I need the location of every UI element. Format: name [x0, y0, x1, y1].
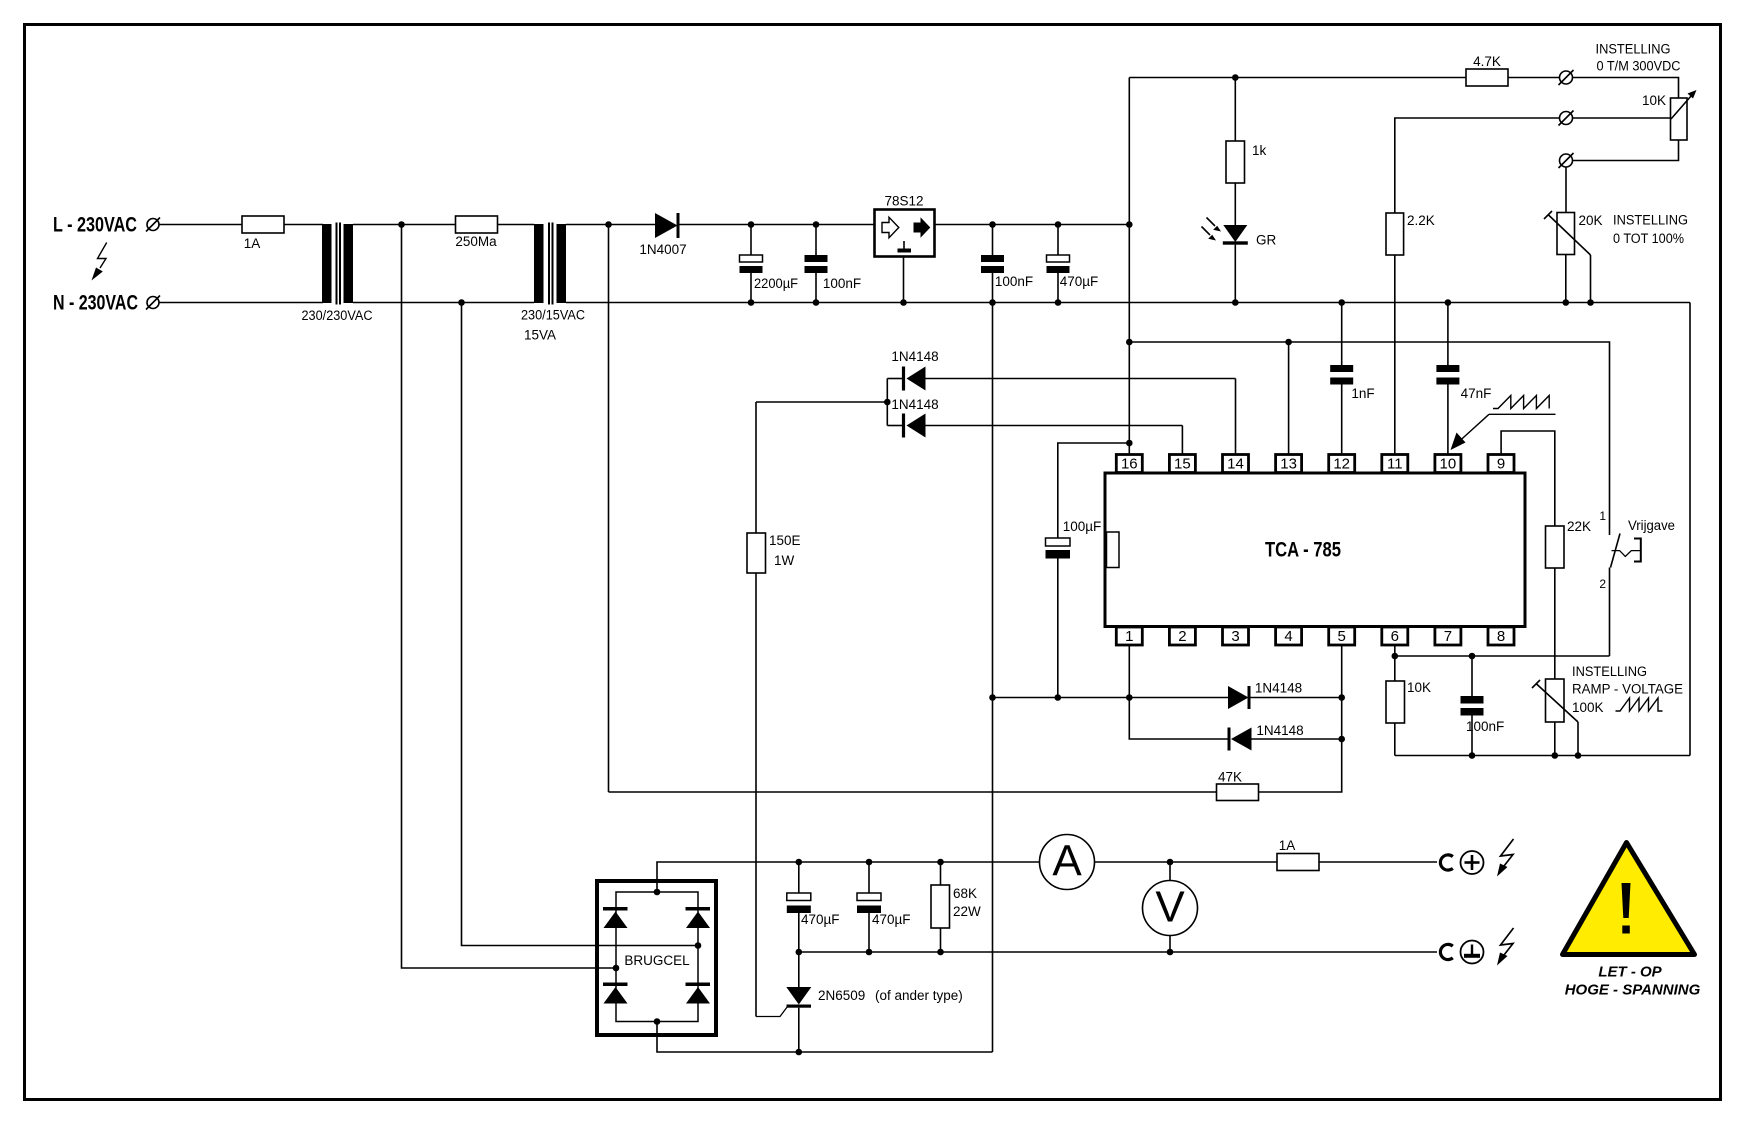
svg-text:0 T/M 300VDC: 0 T/M 300VDC — [1597, 59, 1681, 74]
svg-text:9: 9 — [1497, 456, 1505, 473]
svg-text:INSTELLING: INSTELLING — [1613, 213, 1688, 228]
resistor R8 68K 22W — [940, 862, 942, 885]
junction dots — [398, 221, 405, 228]
pin 9 — [1488, 455, 1514, 473]
fuse F2 250Ma — [456, 216, 498, 233]
svg-text:RAMP - VOLTAGE: RAMP - VOLTAGE — [1572, 682, 1683, 697]
sawtooth symbol ramp — [1616, 698, 1663, 711]
svg-text:4: 4 — [1284, 628, 1292, 645]
bridge diode lower-right — [686, 983, 711, 987]
svg-text:INSTELLING: INSTELLING — [1596, 42, 1671, 57]
svg-text:2200µF: 2200µF — [754, 276, 798, 291]
svg-text:68K: 68K — [953, 886, 977, 901]
regulator U2 78S12 — [875, 210, 935, 257]
fuse F3 1A — [1277, 854, 1319, 871]
svg-text:150E: 150E — [769, 533, 801, 548]
resistor R6 150E — [755, 402, 757, 533]
switch Vrijgave — [1611, 534, 1621, 568]
wire V+ to pin13 rail — [1129, 342, 1609, 535]
node N terminal — [147, 297, 159, 309]
svg-text:5: 5 — [1338, 628, 1346, 645]
wire 4.7K to terminal — [1508, 77, 1560, 79]
svg-text:22W: 22W — [953, 904, 981, 919]
lightning bolt earth — [1501, 928, 1514, 955]
terminal earth — [1461, 941, 1484, 964]
wire terminal2 to pot wiper — [1573, 117, 1671, 119]
sawtooth symbol pin10 — [1493, 396, 1549, 409]
capacitor C5 100uF — [1046, 538, 1071, 546]
wire fuse to T1 — [284, 224, 323, 226]
pin 8 — [1488, 627, 1514, 645]
svg-text:BRUGCEL: BRUGCEL — [624, 953, 690, 968]
svg-text:1nF: 1nF — [1351, 386, 1374, 401]
svg-text:L - 230VAC: L - 230VAC — [53, 214, 137, 237]
svg-text:7: 7 — [1444, 628, 1452, 645]
resistor R3 1k — [1234, 78, 1236, 142]
potentiometer P3 100K — [1546, 679, 1565, 722]
wire terminal1 to pot — [1573, 78, 1679, 99]
wire terminal2 left to 2.2K — [1395, 118, 1560, 213]
pin 7 — [1435, 627, 1461, 645]
wire 2.2K to pin11 — [1394, 255, 1396, 455]
svg-text:1N4148: 1N4148 — [891, 397, 938, 412]
capacitor C6 1nF — [1341, 303, 1343, 366]
svg-text:15: 15 — [1174, 456, 1191, 473]
svg-text:LET - OP: LET - OP — [1598, 964, 1662, 981]
pin 1 — [1116, 627, 1142, 645]
potentiometer P2 20K — [1557, 213, 1575, 255]
wire bridge plus output — [657, 862, 1040, 892]
svg-text:1A: 1A — [244, 236, 261, 251]
svg-text:2: 2 — [1178, 628, 1186, 645]
wire 47K to sync column — [609, 791, 1217, 793]
pin 5 — [1329, 627, 1355, 645]
node terminal 2 — [1560, 112, 1573, 125]
IC U1 TCA-785 body — [1105, 473, 1525, 627]
pin 15 — [1169, 455, 1195, 473]
wire L input — [159, 224, 242, 226]
wire V+ riser x1129 — [1128, 78, 1130, 455]
wire load minus — [799, 951, 1437, 953]
capacitor C1 2200uF — [750, 225, 752, 256]
diode D2 1N4148 — [1228, 686, 1249, 709]
capacitor C4 470uF — [1057, 225, 1059, 256]
svg-text:250Ma: 250Ma — [455, 234, 497, 249]
svg-text:2N6509: 2N6509 — [818, 988, 865, 1003]
LED GR — [1223, 225, 1247, 242]
pin 12 — [1329, 455, 1355, 473]
wire T1 to fuse F2 — [353, 224, 456, 226]
svg-text:78S12: 78S12 — [884, 194, 923, 209]
svg-text:230/230VAC: 230/230VAC — [302, 308, 373, 323]
wire ground rail — [566, 302, 1690, 304]
pin 11 — [1382, 455, 1408, 473]
pin 2 — [1169, 627, 1195, 645]
svg-text:INSTELLING: INSTELLING — [1572, 664, 1647, 679]
svg-text:230/15VAC: 230/15VAC — [521, 308, 585, 323]
capacitor C9 470uF — [798, 862, 800, 893]
wire sync column x608 — [608, 225, 610, 793]
node terminal 1 — [1560, 71, 1573, 84]
wire bridge minus output — [657, 1022, 993, 1053]
wire pin6 node — [1394, 645, 1396, 681]
svg-text:N - 230VAC: N - 230VAC — [53, 292, 138, 315]
connector arc earth — [1440, 944, 1452, 959]
pin 16 — [1116, 455, 1142, 473]
diode D5 1N4148 — [902, 414, 905, 438]
capacitor C10 470uF — [868, 862, 870, 893]
terminal plus — [1461, 851, 1484, 874]
svg-text:TCA - 785: TCA - 785 — [1265, 539, 1341, 562]
ammeter A — [1040, 835, 1095, 890]
diode D4 1N4148 — [902, 367, 905, 391]
svg-text:1A: 1A — [1279, 838, 1296, 853]
wire N' column x461 — [462, 303, 699, 946]
thyristor Q1 2N6509 — [798, 952, 800, 987]
wire 22K to 100K — [1554, 568, 1556, 679]
wire F2 to T2 — [498, 224, 535, 226]
svg-text:1W: 1W — [774, 553, 795, 568]
svg-text:14: 14 — [1227, 456, 1244, 473]
wire top feed to 4.7K — [1129, 77, 1466, 79]
resistor R4 22K — [1546, 526, 1565, 568]
wire terminal3 to 20K — [1565, 167, 1567, 213]
wire ramp bottom — [1395, 755, 1690, 757]
bridge diode upper-left — [603, 907, 628, 911]
wire gnd drop x992 — [992, 303, 994, 1053]
pin 10 — [1435, 455, 1461, 473]
pin 14 — [1223, 455, 1249, 473]
lightning bolt mains — [98, 243, 107, 269]
node L terminal — [147, 219, 159, 231]
capacitor C3 100nF — [992, 225, 994, 256]
wire N input — [159, 302, 323, 304]
resistor R7 10K — [1386, 681, 1405, 723]
svg-text:15VA: 15VA — [524, 328, 556, 343]
resistor R5 47K — [1217, 784, 1259, 801]
svg-text:1: 1 — [1599, 509, 1606, 523]
svg-text:20K: 20K — [1579, 213, 1603, 228]
svg-text:470µF: 470µF — [1060, 274, 1099, 289]
pin 4 — [1276, 627, 1302, 645]
svg-text:470µF: 470µF — [801, 912, 840, 927]
pin 13 — [1276, 455, 1302, 473]
wire ground rail drop right — [1689, 303, 1691, 756]
wire L' column x401 — [402, 225, 617, 969]
wire pin1 column — [1129, 645, 1227, 739]
svg-text:8: 8 — [1497, 628, 1505, 645]
svg-text:1k: 1k — [1252, 143, 1267, 158]
svg-text:11: 11 — [1387, 456, 1403, 473]
svg-text:16: 16 — [1121, 456, 1138, 473]
resistor R2 2.2K — [1386, 213, 1404, 255]
svg-text:22K: 22K — [1567, 519, 1591, 534]
connector arc plus — [1440, 855, 1452, 870]
wire pin13 stub — [1288, 342, 1290, 455]
svg-text:GR: GR — [1256, 233, 1277, 248]
svg-text:2: 2 — [1599, 577, 1606, 591]
svg-text:470µF: 470µF — [872, 912, 911, 927]
svg-text:2.2K: 2.2K — [1407, 213, 1435, 228]
bridge diode lower-left — [603, 983, 628, 987]
voltmeter V — [1143, 881, 1198, 936]
wire D1 to 78S12 — [680, 224, 875, 226]
wire T2 secondary top — [566, 224, 655, 226]
wire gnd to pin5 — [993, 697, 1229, 699]
wire 12V output — [935, 224, 1130, 226]
svg-text:10K: 10K — [1642, 93, 1666, 108]
svg-text:47nF: 47nF — [1461, 386, 1492, 401]
svg-text:100nF: 100nF — [995, 274, 1033, 289]
svg-text:1N4148: 1N4148 — [1255, 681, 1302, 696]
svg-text:(of ander type): (of ander type) — [875, 988, 963, 1003]
svg-text:10: 10 — [1440, 456, 1457, 473]
svg-text:1N4148: 1N4148 — [891, 349, 938, 364]
svg-text:0 TOT 100%: 0 TOT 100% — [1613, 231, 1684, 246]
svg-text:100nF: 100nF — [823, 276, 861, 291]
svg-text:12: 12 — [1333, 456, 1350, 473]
diode D1 1N4007 — [655, 213, 678, 238]
wire 100uF top link — [1058, 443, 1130, 538]
svg-text:100nF: 100nF — [1466, 719, 1504, 734]
capacitor C2 100nF — [815, 225, 817, 256]
node terminal 3 — [1560, 154, 1573, 167]
wire 78S12 ground pin — [903, 257, 905, 303]
svg-text:10K: 10K — [1407, 680, 1431, 695]
svg-text:6: 6 — [1391, 628, 1399, 645]
svg-text:4.7K: 4.7K — [1473, 54, 1501, 69]
svg-text:1N4148: 1N4148 — [1256, 723, 1303, 738]
svg-text:3: 3 — [1231, 628, 1239, 645]
svg-text:1N4007: 1N4007 — [639, 242, 686, 257]
pin 6 — [1382, 627, 1408, 645]
diode D3 1N4148 — [1228, 728, 1231, 751]
capacitor C7 47nF — [1447, 303, 1449, 366]
potentiometer P1 10K — [1671, 98, 1688, 140]
svg-text:HOGE - SPANNING: HOGE - SPANNING — [1565, 982, 1701, 999]
transformer T2 230/15VAC — [534, 223, 566, 305]
fuse F1 1A — [242, 216, 284, 233]
bridge diode upper-right — [686, 907, 711, 911]
svg-text:13: 13 — [1280, 456, 1297, 473]
svg-text:100K: 100K — [1572, 700, 1604, 715]
bridge rectifier BRUGCEL box — [597, 881, 716, 1035]
resistor R1 4.7K — [1466, 69, 1508, 86]
wire A to fuse — [1095, 861, 1278, 863]
wire pin5 column — [1259, 645, 1342, 792]
svg-text:1: 1 — [1125, 628, 1133, 645]
pin 3 — [1223, 627, 1249, 645]
svg-text:47K: 47K — [1218, 770, 1242, 785]
bridge ring — [616, 892, 698, 1022]
transformer T1 230/230VAC — [322, 223, 353, 305]
svg-text:V: V — [1155, 883, 1185, 932]
wire pin9 to 22K — [1501, 431, 1555, 526]
wire fuse to plus terminal — [1319, 861, 1437, 863]
svg-text:Vrijgave: Vrijgave — [1628, 518, 1675, 533]
svg-text:A: A — [1052, 837, 1082, 886]
wire diode junction — [886, 379, 888, 426]
warning triangle — [1563, 843, 1695, 955]
wire pot bottom to terminal3 — [1573, 140, 1679, 161]
lightning bolt plus — [1501, 839, 1514, 866]
svg-text:100µF: 100µF — [1063, 519, 1102, 534]
wire N rail between transformers — [353, 302, 534, 304]
capacitor C8 100nF — [1471, 656, 1473, 696]
